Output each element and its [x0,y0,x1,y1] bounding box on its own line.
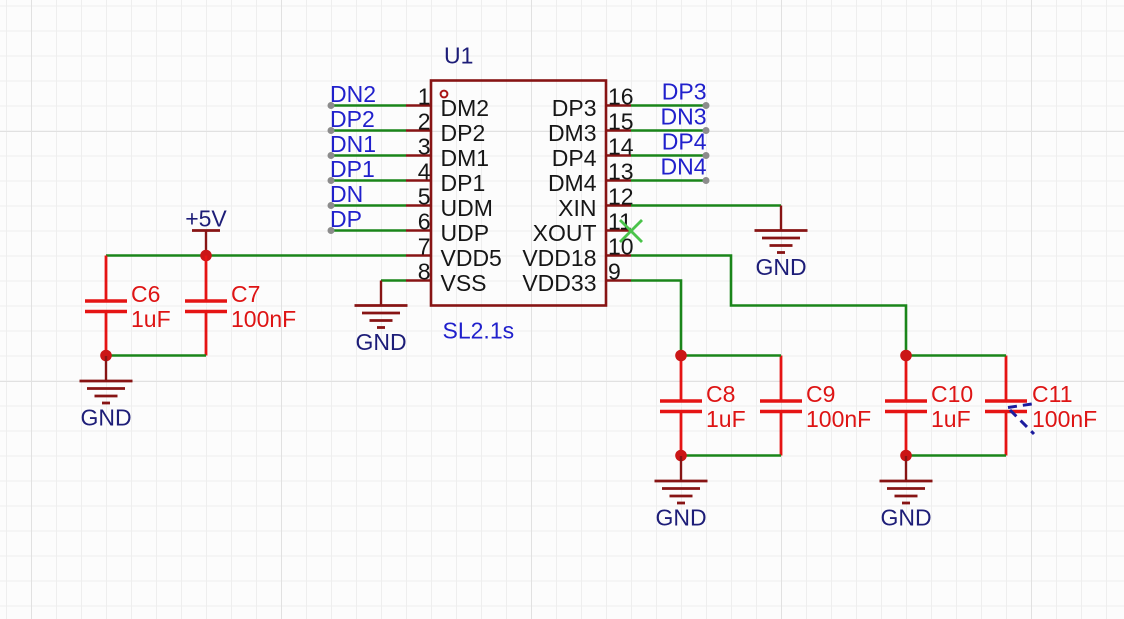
wire net DP1 to pin 4 [328,177,407,184]
svg-text:DP4: DP4 [552,145,597,171]
capacitor C7 [185,256,227,356]
U1 pin 6 (UDP) [406,209,489,247]
annotation: dashed cursor mark at C11 [1008,404,1035,435]
svg-text:7: 7 [418,234,431,260]
svg-text:VDD18: VDD18 [522,245,596,271]
wire pin 10 VDD18 to C10 [631,256,906,356]
svg-text:GND: GND [80,405,131,431]
junction at +5V / C7 / pin7 rail [200,250,212,262]
wire net DP2 to pin 2 [328,127,407,134]
svg-text:GND: GND [755,254,806,280]
svg-text:VDD5: VDD5 [441,245,502,271]
svg-text:DN3: DN3 [660,104,706,130]
svg-text:1uF: 1uF [131,306,171,332]
svg-text:5: 5 [418,184,431,210]
svg-text:1: 1 [418,84,431,110]
ground flag GND (below C10) [880,456,933,531]
svg-text:GND: GND [655,505,706,531]
svg-text:100nF: 100nF [231,306,296,332]
svg-text:1uF: 1uF [706,406,746,432]
svg-text:C10: C10 [931,381,973,407]
junction at C8 top [675,350,687,362]
U1 pin 16 (DP3) [552,84,634,122]
junction at C8 bottom [675,450,687,462]
U1 pin 14 (DP4) [552,134,634,172]
wire C8 top to C9 top [681,354,781,357]
svg-text:DP1: DP1 [330,156,375,182]
svg-text:+5V: +5V [185,206,227,232]
ground flag GND (below C8) [655,456,708,531]
wire C10 top to C11 top [906,354,1006,357]
wire C10 bottom to C11 bottom [906,454,1006,457]
svg-text:1uF: 1uF [931,406,971,432]
wire pin 16 to net DP3 [631,102,710,109]
svg-text:16: 16 [608,84,634,110]
U1 pin 7 (VDD5) [406,234,502,272]
U1 pin 10 (VDD18) [522,234,633,272]
svg-text:DP1: DP1 [441,170,486,196]
svg-text:DM1: DM1 [441,145,490,171]
svg-text:DN1: DN1 [330,131,376,157]
wire net DN to pin 5 [328,202,407,209]
svg-text:C6: C6 [131,281,160,307]
junction at C10 bottom [900,450,912,462]
svg-text:C8: C8 [706,381,735,407]
wire pin 12 XIN to ground [631,204,781,207]
wire net DP to pin 6 [328,227,407,234]
capacitor C6 [85,256,127,356]
ground flag GND (pin 12) [755,206,808,281]
power flag +5V [185,206,227,256]
svg-text:SL2.1s: SL2.1s [443,318,515,344]
U1 pin 5 (UDM) [406,184,493,222]
svg-text:C9: C9 [806,381,835,407]
svg-text:DP3: DP3 [662,79,707,105]
svg-text:GND: GND [355,329,406,355]
U1 pin 4 (DP1) [406,159,485,197]
wire pin 9 VDD33 to C8 [631,281,681,356]
svg-text:XIN: XIN [558,195,596,221]
wire net DN1 to pin 3 [328,152,407,159]
wire pin 13 to net DN4 [631,177,710,184]
svg-text:4: 4 [418,159,431,185]
capacitor C11 [985,356,1027,456]
svg-text:XOUT: XOUT [533,220,597,246]
U1 pin 3 (DM1) [406,134,489,172]
wire +5V rail C6 to pin 7 [106,254,406,257]
svg-text:15: 15 [608,109,634,135]
U1 pin 15 (DM3) [548,109,634,147]
U1 pin 2 (DP2) [406,109,485,147]
no-connect flag on pin 11 XOUT [620,220,642,242]
svg-text:10: 10 [608,234,634,260]
svg-text:C11: C11 [1032,381,1073,407]
svg-text:13: 13 [608,159,634,185]
U1 pin 11 (XOUT) [533,209,632,247]
IC U1 body [431,81,606,306]
svg-text:DP4: DP4 [662,129,707,155]
svg-text:DN2: DN2 [330,81,376,107]
svg-text:C7: C7 [231,281,260,307]
svg-text:UDP: UDP [441,220,490,246]
wire pin 8 VSS to ground [381,279,406,282]
svg-text:DP3: DP3 [552,95,597,121]
svg-text:VDD33: VDD33 [522,270,596,296]
svg-text:DM2: DM2 [441,95,490,121]
U1 pin 8 (VSS) [406,259,487,297]
ground flag GND (pin 8 VSS) [355,281,408,356]
ground flag GND (below C6) [80,356,133,431]
svg-text:100nF: 100nF [1032,406,1097,432]
wire C8 bottom to C9 bottom [681,454,781,457]
svg-text:DN: DN [330,181,363,207]
U1 pin 1 (DM2) [406,84,489,122]
wire C6 bottom to C7 bottom [106,354,206,357]
capacitor C10 [885,356,927,456]
svg-text:U1: U1 [444,43,473,69]
svg-text:100nF: 100nF [806,406,871,432]
capacitor C8 [660,356,702,456]
svg-text:DN4: DN4 [660,154,706,180]
svg-text:DM3: DM3 [548,120,597,146]
wire net DN2 to pin 1 [328,102,407,109]
svg-text:DP2: DP2 [330,106,375,132]
svg-text:8: 8 [418,259,431,285]
svg-text:12: 12 [608,184,634,210]
wire pin 14 to net DP4 [631,152,710,159]
capacitor C9 [760,356,802,456]
svg-text:2: 2 [418,109,431,135]
junction at C6 bottom / GND [100,350,112,362]
svg-text:GND: GND [880,505,931,531]
svg-text:9: 9 [608,259,621,285]
U1 pin 12 (XIN) [558,184,633,222]
svg-text:DM4: DM4 [548,170,597,196]
wire pin 15 to net DN3 [631,127,710,134]
svg-text:VSS: VSS [441,270,487,296]
svg-text:14: 14 [608,134,634,160]
svg-text:UDM: UDM [441,195,493,221]
svg-text:DP2: DP2 [441,120,486,146]
U1 pin 13 (DM4) [548,159,634,197]
U1 pin 9 (VDD33) [522,259,631,297]
svg-text:6: 6 [418,209,431,235]
svg-text:3: 3 [418,134,431,160]
junction at C10 top [900,350,912,362]
svg-text:DP: DP [330,206,362,232]
